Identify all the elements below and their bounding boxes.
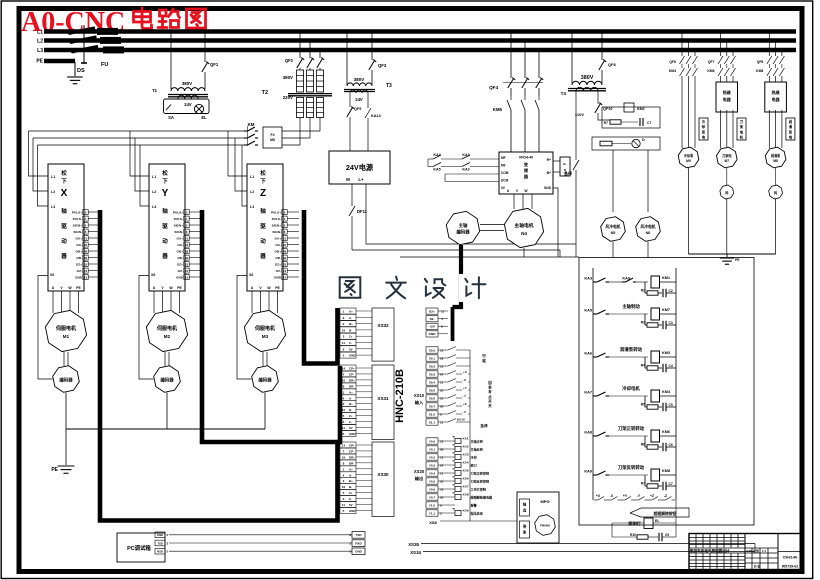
svg-text:C7: C7 — [669, 482, 673, 486]
svg-text:T1: T1 — [152, 88, 158, 93]
svg-text:架: 架 — [739, 124, 744, 129]
svg-text:-Y: -Y — [463, 394, 466, 398]
svg-text:Z+: Z+ — [349, 414, 353, 418]
motor return rail — [400, 256, 579, 258]
svg-text:KA1: KA1 — [463, 437, 469, 441]
svg-text:24: 24 — [185, 269, 189, 273]
svg-text:PE: PE — [177, 286, 182, 290]
svg-text:OB+: OB+ — [177, 249, 184, 253]
svg-text:C9: C9 — [665, 533, 669, 537]
handwheel MPG box — [517, 492, 559, 543]
svg-text:KM5: KM5 — [493, 107, 503, 112]
svg-text:R5: R5 — [641, 403, 645, 407]
svg-text:轴: 轴 — [61, 207, 67, 215]
svg-text:X6: X6 — [249, 273, 253, 277]
snubber C3 — [662, 364, 664, 373]
svg-text:工作灯控制: 工作灯控制 — [471, 487, 486, 492]
svg-text:A-: A- — [349, 316, 352, 320]
svg-text:伺服电机: 伺服电机 — [156, 325, 177, 332]
svg-text:5V: 5V — [349, 503, 353, 507]
svg-text:主轴电机: 主轴电机 — [514, 222, 533, 229]
ladder left rail — [592, 268, 594, 500]
svg-text:10: 10 — [440, 487, 444, 491]
svg-text:主轴正转: 主轴正转 — [471, 439, 484, 444]
svg-text:冷却泵: 冷却泵 — [684, 153, 694, 158]
svg-text:KA10: KA10 — [457, 418, 465, 422]
encoder for M1 — [63, 352, 65, 366]
spindle encoder cable to XS11 — [453, 245, 462, 307]
svg-text:轴: 轴 — [260, 207, 266, 215]
svg-text:B-: B- — [349, 328, 352, 332]
spindle motor M4 — [504, 208, 543, 247]
switch SA — [166, 105, 171, 111]
svg-text:KM8: KM8 — [756, 69, 763, 73]
svg-text:冷却电机: 冷却电机 — [622, 385, 640, 392]
svg-text:N4: N4 — [521, 231, 527, 236]
svg-text:Y0.5: Y0.5 — [429, 479, 436, 483]
svg-text:程: 程 — [481, 358, 486, 363]
svg-text:B+: B+ — [349, 479, 353, 483]
connector XS31 label box — [372, 365, 394, 439]
svg-text:冷却: 冷却 — [471, 455, 477, 460]
svg-text:XS8: XS8 — [429, 520, 437, 525]
svg-text:松: 松 — [61, 169, 67, 177]
svg-text:KA13: KA13 — [371, 114, 381, 118]
svg-text:24: 24 — [283, 269, 287, 273]
svg-text:FU: FU — [101, 62, 108, 68]
svg-text:L2: L2 — [51, 190, 55, 194]
svg-text:DCM: DCM — [501, 179, 509, 183]
svg-text:主轴反转: 主轴反转 — [471, 447, 484, 452]
svg-text:DR-: DR- — [349, 461, 354, 465]
resistor-lamp branch box — [592, 137, 660, 150]
svg-text:CP+: CP+ — [349, 367, 355, 371]
svg-text:SIGN-: SIGN- — [174, 230, 183, 234]
svg-text:Z: Z — [260, 188, 266, 199]
svg-text:M1: M1 — [63, 334, 70, 339]
snubber R5 — [645, 436, 647, 447]
svg-text:Y: Y — [162, 188, 169, 199]
svg-text:Y0.3: Y0.3 — [429, 463, 436, 467]
svg-text:OA+: OA+ — [76, 236, 83, 240]
svg-text:报警: 报警 — [471, 503, 478, 508]
lamp EL — [194, 104, 203, 113]
snubber C6 — [662, 482, 664, 491]
svg-text:DR+: DR+ — [349, 378, 355, 382]
svg-text:GND: GND — [349, 354, 355, 358]
svg-text:KA3: KA3 — [462, 168, 469, 172]
svg-text:380V: 380V — [182, 81, 192, 86]
servo motor M3 — [244, 310, 285, 351]
svg-text:T3: T3 — [386, 83, 392, 89]
label box M9 — [699, 118, 708, 140]
title chinese — [141, 8, 144, 22]
svg-text:10: 10 — [342, 408, 346, 412]
svg-text:M0: M0 — [501, 164, 506, 168]
PE ground symbol — [65, 429, 67, 465]
svg-text:22: 22 — [283, 243, 287, 247]
svg-text:OB-: OB- — [275, 256, 281, 260]
bus junction dots — [169, 30, 172, 33]
svg-text:+Z: +Z — [650, 494, 654, 498]
wires bus to QF4 — [510, 32, 512, 79]
svg-text:49: 49 — [84, 256, 88, 260]
svg-text:R+: R+ — [547, 158, 551, 162]
ladder enclosure box — [579, 258, 754, 526]
svg-text:PE: PE — [51, 467, 58, 473]
svg-text:14: 14 — [342, 367, 346, 371]
svg-text:F4: F4 — [271, 133, 275, 137]
snubber C2 — [662, 321, 664, 330]
svg-text:X0.5: X0.5 — [429, 388, 436, 392]
svg-text:SIGN+: SIGN+ — [272, 223, 282, 227]
svg-text:QF8: QF8 — [757, 60, 764, 64]
svg-text:数控车床电气原理图设计: 数控车床电气原理图设计 — [689, 548, 730, 553]
svg-text:QF1: QF1 — [210, 62, 219, 67]
svg-text:+X: +X — [463, 370, 467, 374]
svg-text:OA-: OA- — [177, 243, 183, 247]
switch DF11 — [351, 184, 353, 206]
svg-text:KA7: KA7 — [463, 485, 469, 489]
svg-text:X: X — [61, 188, 68, 199]
svg-text:380V: 380V — [581, 75, 594, 81]
svg-text:QF6: QF6 — [669, 60, 676, 64]
svg-text:KA2: KA2 — [462, 153, 469, 157]
svg-text:L3: L3 — [152, 205, 156, 209]
terminal box F4M8 — [263, 127, 282, 148]
svg-text:23: 23 — [84, 262, 88, 266]
PC debug pins — [155, 532, 165, 538]
svg-text:Y0.4: Y0.4 — [429, 471, 436, 475]
feeder wires from KM to drivers — [29, 130, 245, 132]
svg-text:QF2: QF2 — [285, 58, 294, 63]
svg-text:11: 11 — [440, 420, 444, 424]
brake resistor — [553, 160, 560, 162]
thermal relay box M7 — [716, 82, 738, 112]
svg-text:C4: C4 — [669, 364, 673, 368]
svg-text:L+: L+ — [358, 177, 364, 182]
motor M9 — [678, 147, 699, 168]
svg-text:L3: L3 — [37, 48, 43, 54]
svg-text:48: 48 — [84, 249, 88, 253]
svg-text:22: 22 — [84, 243, 88, 247]
svg-text:48: 48 — [185, 249, 189, 253]
bus PE wire — [44, 59, 75, 63]
svg-text:+Y: +Y — [463, 386, 467, 390]
inverter U1 box — [499, 152, 553, 194]
svg-text:下: 下 — [61, 178, 67, 185]
svg-text:器: 器 — [60, 252, 67, 260]
svg-text:24: 24 — [84, 269, 88, 273]
svg-text:5V: 5V — [349, 347, 353, 351]
connector XS32 terminals — [340, 308, 356, 314]
svg-text:KA7: KA7 — [584, 391, 592, 395]
svg-text:+X: +X — [596, 494, 601, 498]
svg-text:OZ-: OZ- — [276, 269, 281, 273]
svg-text:行: 行 — [481, 353, 486, 358]
motor M7 — [717, 147, 738, 168]
svg-text:Y0.6: Y0.6 — [429, 487, 436, 491]
svg-text:器: 器 — [161, 252, 168, 260]
svg-text:C7: C7 — [647, 121, 651, 125]
connector XS31 terminals — [340, 365, 356, 371]
svg-text:X6: X6 — [151, 273, 155, 277]
svg-text:HNC-210B: HNC-210B — [394, 369, 406, 423]
svg-text:动: 动 — [61, 237, 67, 245]
svg-text:Y0.0: Y0.0 — [429, 439, 436, 443]
svg-text:TXD: TXD — [356, 533, 363, 537]
svg-text:驱: 驱 — [162, 222, 168, 230]
ground at DS — [74, 62, 76, 76]
title block middle cells — [745, 547, 778, 549]
svg-text:OA+: OA+ — [275, 236, 282, 240]
svg-text:26: 26 — [440, 404, 444, 408]
svg-text:GND: GND — [429, 332, 437, 336]
svg-text:RXD: RXD — [355, 541, 362, 545]
svg-text:器: 器 — [259, 252, 266, 260]
svg-text:29: 29 — [440, 356, 444, 360]
spindle encoder — [446, 211, 479, 244]
svg-text:49: 49 — [283, 256, 287, 260]
svg-text:CP-: CP- — [349, 449, 354, 453]
svg-text:R4: R4 — [641, 364, 645, 368]
svg-text:下: 下 — [260, 178, 266, 185]
svg-text:RXD: RXD — [157, 550, 163, 554]
watermark — [335, 274, 365, 302]
connector XS10 terminals and input contacts — [426, 347, 438, 353]
svg-text:DR+: DR+ — [349, 455, 355, 459]
svg-text:25: 25 — [440, 388, 444, 392]
encoder feedback wire M3 — [237, 276, 252, 380]
svg-text:1:4: 1:4 — [762, 549, 766, 553]
svg-text:24V电源: 24V电源 — [346, 163, 374, 172]
svg-text:21: 21 — [283, 236, 287, 240]
svg-text:COM: COM — [501, 171, 509, 175]
svg-text:动: 动 — [162, 237, 168, 245]
svg-text:10: 10 — [440, 396, 444, 400]
bus L1 wire — [44, 29, 796, 33]
svg-text:恒压启动: 恒压启动 — [470, 511, 483, 516]
input common wire — [469, 350, 471, 521]
svg-text:PULS-: PULS- — [272, 217, 281, 221]
snubber C4 — [662, 403, 664, 412]
svg-text:M8: M8 — [773, 159, 778, 163]
snubber R4 — [645, 396, 647, 407]
svg-text:R7: R7 — [641, 482, 645, 486]
connector XS20 terminals and relay coils — [426, 438, 438, 444]
wires bus to T2 — [299, 32, 301, 59]
svg-text:D: D — [642, 138, 645, 142]
svg-text:换刀: 换刀 — [471, 463, 477, 468]
svg-text:QF3: QF3 — [378, 63, 387, 68]
24V L+ rail — [366, 184, 576, 244]
svg-text:X1.0: X1.0 — [429, 412, 436, 416]
svg-text:SA: SA — [168, 115, 174, 120]
svg-text:KA9: KA9 — [584, 470, 592, 474]
ladder right rail — [675, 268, 677, 500]
svg-text:KA3: KA3 — [463, 453, 469, 457]
svg-text:11: 11 — [440, 471, 444, 475]
bus L3 wire — [44, 48, 796, 52]
svg-text:DR-: DR- — [349, 384, 354, 388]
wires bus to T4 — [571, 32, 573, 84]
svg-text:C5: C5 — [669, 403, 673, 407]
encoder ground wire M2 — [166, 393, 168, 430]
svg-text:PULS-: PULS- — [174, 217, 183, 221]
svg-text:润滑泵转动: 润滑泵转动 — [620, 346, 643, 353]
svg-text:刀架反转控制: 刀架反转控制 — [471, 479, 490, 484]
connector XS30 terminals — [340, 442, 356, 448]
svg-text:M9: M9 — [686, 159, 691, 163]
svg-text:B2+: B2+ — [429, 309, 435, 313]
svg-text:OA+: OA+ — [177, 236, 184, 240]
svg-text:10: 10 — [342, 485, 346, 489]
svg-text:Z-: Z- — [349, 341, 352, 345]
svg-text:X0.7: X0.7 — [429, 404, 436, 408]
encoder for M2 — [164, 352, 166, 366]
svg-text:主轴制动: 主轴制动 — [622, 303, 640, 310]
control lamp circuit box — [164, 99, 210, 114]
svg-text:KA5: KA5 — [433, 168, 440, 172]
svg-text:TXD: TXD — [157, 541, 162, 545]
svg-text:R3: R3 — [641, 321, 645, 325]
svg-text:SIGN-: SIGN- — [73, 230, 82, 234]
svg-text:25: 25 — [440, 479, 444, 483]
svg-text:超程解除继电器: 超程解除继电器 — [470, 495, 494, 500]
svg-text:380V: 380V — [354, 77, 366, 82]
svg-text:PE: PE — [735, 258, 740, 262]
fan motor N6 — [647, 150, 649, 212]
wires T2 secondary down — [299, 118, 301, 146]
wire L1 to T1 — [170, 33, 172, 89]
svg-text:Y0.2: Y0.2 — [429, 455, 436, 459]
svg-text:11: 11 — [342, 503, 346, 507]
svg-text:C2: C2 — [669, 289, 673, 293]
svg-text:28: 28 — [440, 447, 444, 451]
svg-text:热继: 热继 — [772, 89, 780, 95]
encoder feedback wire M1 — [38, 276, 53, 380]
svg-text:11: 11 — [342, 341, 346, 345]
svg-text:润滑泵: 润滑泵 — [771, 153, 781, 158]
svg-text:L1: L1 — [152, 175, 156, 179]
svg-text:A-: A- — [349, 396, 352, 400]
svg-text:松: 松 — [162, 169, 168, 177]
svg-text:CP+: CP+ — [349, 444, 355, 448]
svg-text:轴: 轴 — [162, 207, 168, 215]
svg-text:10: 10 — [342, 455, 346, 459]
svg-text:急停: 急停 — [564, 170, 572, 176]
handwheel generator — [535, 515, 556, 536]
svg-text:13: 13 — [283, 275, 287, 279]
svg-text:11: 11 — [440, 380, 444, 384]
title block — [689, 534, 802, 570]
svg-text:KM7: KM7 — [662, 308, 670, 312]
svg-text:GND: GND — [176, 275, 184, 279]
svg-text:13: 13 — [84, 275, 88, 279]
svg-text:选: 选 — [523, 508, 527, 513]
svg-text:XS34: XS34 — [410, 550, 421, 555]
svg-text:OA-: OA- — [76, 243, 82, 247]
relay coil KM3 — [651, 351, 660, 363]
svg-text:Y1.1: Y1.1 — [429, 511, 436, 515]
encoder for M3 — [262, 352, 264, 366]
snubber C5 — [662, 443, 664, 452]
overtravel release callout — [630, 508, 689, 517]
snubber R2 — [645, 314, 647, 325]
svg-text:SIGN-: SIGN- — [272, 230, 281, 234]
encoder ground wire M3 — [264, 393, 266, 430]
svg-text:M2: M2 — [164, 334, 171, 339]
spindle motor ground wire — [523, 248, 525, 257]
svg-text:Z-: Z- — [349, 420, 352, 424]
svg-text:+Y: +Y — [623, 494, 628, 498]
svg-text:R7: R7 — [604, 121, 608, 125]
svg-text:B-: B- — [349, 485, 352, 489]
breaker QF1 — [202, 62, 208, 72]
wire bus to T3 — [346, 33, 348, 85]
svg-text:Z-: Z- — [349, 497, 352, 501]
svg-text:A+: A+ — [349, 310, 353, 314]
svg-text:KM1: KM1 — [662, 276, 670, 280]
svg-text:X0.3: X0.3 — [429, 372, 436, 376]
branch M7 wires from bus — [720, 32, 722, 57]
svg-text:N5: N5 — [611, 231, 616, 235]
svg-text:GND: GND — [75, 275, 83, 279]
svg-text:KM: KM — [248, 122, 255, 127]
svg-text:220V: 220V — [283, 95, 293, 100]
24V power supply box — [329, 151, 390, 184]
encoder M8 — [775, 168, 777, 185]
svg-text:QF8: QF8 — [608, 62, 617, 67]
svg-text:R10: R10 — [630, 533, 636, 537]
svg-text:23: 23 — [283, 262, 287, 266]
encoder feedback wire M2 — [139, 276, 154, 380]
snubber R6 — [645, 475, 647, 486]
driver unit Y-axis box — [149, 164, 185, 291]
svg-text:风冷电机: 风冷电机 — [640, 224, 655, 229]
svg-text:OB-: OB- — [177, 256, 183, 260]
snubber R1 — [645, 282, 647, 293]
svg-text:X0.0: X0.0 — [429, 348, 436, 352]
svg-text:13: 13 — [440, 348, 444, 352]
svg-text:KA8: KA8 — [584, 431, 592, 435]
svg-text:3:45: 3:45 — [746, 549, 752, 553]
svg-text:SIGN+: SIGN+ — [73, 223, 83, 227]
encoder ground wire M1 — [65, 393, 67, 430]
branch M9 wires from bus — [681, 32, 683, 57]
svg-text:48: 48 — [283, 249, 287, 253]
svg-text:CP-: CP- — [349, 372, 354, 376]
svg-text:X0.1: X0.1 — [429, 356, 436, 360]
svg-text:驱: 驱 — [260, 222, 266, 230]
svg-text:CK6140: CK6140 — [783, 555, 798, 560]
svg-text:A+: A+ — [349, 390, 353, 394]
svg-text:超程解除按钮: 超程解除按钮 — [653, 511, 677, 516]
disconnect DS — [70, 28, 95, 33]
svg-text:L1: L1 — [51, 175, 55, 179]
svg-text:OZ+: OZ+ — [76, 262, 82, 266]
svg-text:21: 21 — [185, 236, 189, 240]
svg-text:XS10: XS10 — [414, 393, 425, 398]
label box M8 — [786, 118, 795, 140]
svg-text:-Z: -Z — [664, 494, 667, 498]
svg-text:KM6: KM6 — [662, 430, 670, 434]
svg-text:L2: L2 — [37, 38, 43, 44]
handwheel axis select — [520, 499, 530, 516]
svg-text:OB+: OB+ — [76, 249, 83, 253]
cable X driver to XS30 — [100, 210, 338, 521]
svg-text:电器: 电器 — [772, 96, 781, 102]
